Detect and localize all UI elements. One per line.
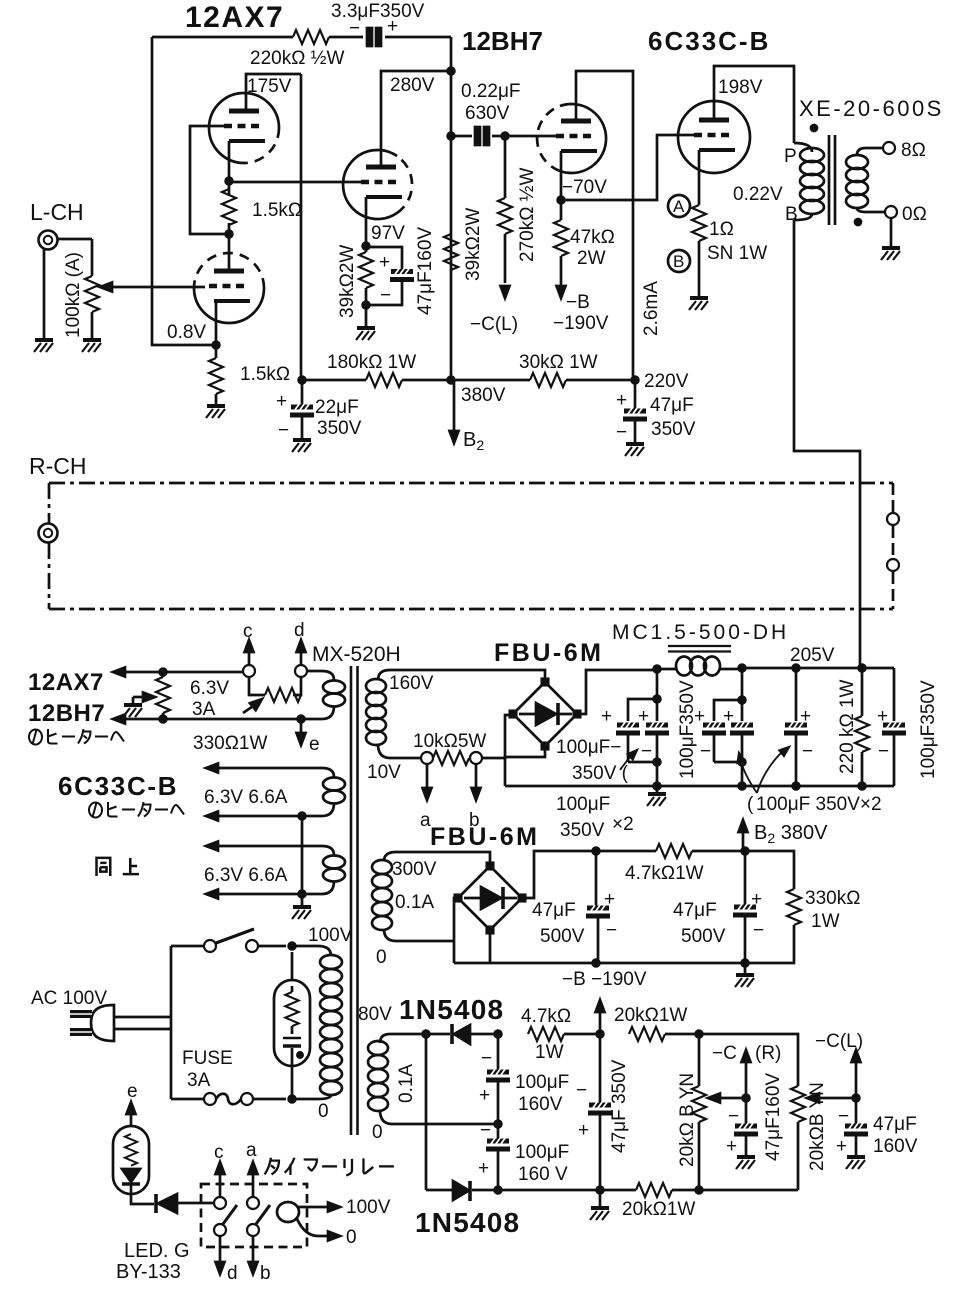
svg-text:280V: 280V [390, 75, 435, 96]
terminal a [421, 752, 433, 764]
svg-text:XE-20-600S: XE-20-600S [799, 96, 944, 121]
relay contact c-d [214, 1197, 226, 1209]
svg-text:0.1A: 0.1A [395, 892, 434, 913]
resistor R 4.7k1W [656, 844, 692, 858]
svg-text:0.8V: 0.8V [167, 322, 206, 343]
svg-text:1N5408: 1N5408 [415, 1207, 520, 1238]
wire 380V rail [302, 379, 635, 382]
svg-text:0: 0 [376, 947, 387, 968]
svg-text:B: B [785, 204, 798, 225]
capacitor C 22uF350V [301, 380, 304, 405]
svg-text:−C: −C [712, 1043, 737, 1064]
diode D1 1N5408 [450, 1024, 454, 1044]
svg-text:−: − [728, 1106, 739, 1127]
diode BY-133 [154, 1194, 158, 1213]
svg-text:3A: 3A [192, 699, 216, 720]
svg-text:+: + [604, 889, 615, 910]
wire bridge plus up to filter rail [577, 670, 657, 714]
svg-text:39kΩ2W: 39kΩ2W [463, 208, 484, 281]
svg-text:6C33C-B: 6C33C-B [58, 771, 178, 801]
capacitor C 100uF160V #2 [486, 1138, 510, 1151]
wire V1a plate to 175V line [246, 74, 301, 111]
terminal 0 ohm [885, 206, 897, 218]
cap 3 100uF350V single [795, 668, 798, 721]
node V4 grid [502, 133, 509, 140]
wire bias bottom rail [454, 962, 745, 965]
svg-text:100μF350V: 100μF350V [677, 680, 698, 779]
wire bridge minus to bottom rail [505, 746, 545, 786]
svg-text:×2: ×2 [612, 814, 634, 835]
wire b to bridge AC2 [482, 715, 510, 758]
capacitor C 47uF350V bias [599, 1034, 602, 1103]
svg-text:−: − [481, 1048, 492, 1069]
wire filter top rail [742, 667, 894, 670]
OPT core [829, 135, 835, 225]
svg-text:+: + [478, 1158, 489, 1179]
svg-text:0.1A: 0.1A [396, 1064, 417, 1103]
arrow variable 330 [243, 702, 259, 713]
node W1 bottom left [160, 716, 167, 723]
node -B line top [597, 1031, 604, 1038]
svg-text:−: − [641, 741, 652, 762]
terminal R-CH upper [887, 513, 899, 525]
jack input L [39, 231, 58, 250]
wire top rail to pot2 [699, 1034, 798, 1190]
relay contact a-b [247, 1197, 259, 1209]
svg-text:−70V: −70V [562, 177, 607, 198]
svg-text:−: − [838, 1106, 849, 1127]
svg-text:1.5kΩ: 1.5kΩ [240, 364, 290, 385]
svg-text:B: B [673, 252, 684, 271]
wire pot1 vertical [698, 1034, 701, 1190]
node 97V [363, 243, 370, 250]
arrow a [252, 1174, 255, 1197]
svg-text:+: + [836, 1136, 847, 1157]
svg-text:380V: 380V [461, 385, 506, 406]
svg-text:−B −190V: −B −190V [562, 969, 647, 990]
svg-text:10V: 10V [367, 762, 401, 783]
tube V2 12AX7 lower envelope [194, 288, 264, 323]
choke winding [657, 668, 742, 671]
wire V2 cathode lead [215, 301, 218, 345]
svg-text:−B: −B [566, 292, 590, 313]
svg-text:180kΩ 1W: 180kΩ 1W [327, 352, 416, 373]
svg-text:100μF: 100μF [515, 1142, 569, 1163]
svg-text:+: + [578, 1120, 589, 1141]
node -70V [558, 197, 565, 204]
resistor R 220k half-W [293, 30, 329, 44]
node V1a cathode / V2 grid [226, 178, 233, 185]
capacitor C 47uF160V (L) [855, 1098, 858, 1124]
svg-text:160V: 160V [518, 1094, 563, 1115]
svg-text:−: − [616, 422, 627, 443]
svg-text:(R): (R) [755, 1043, 781, 1064]
wire OPT B terminal down to supply [794, 220, 860, 668]
node tube2 cathode junction [213, 342, 220, 349]
winding 300V 0.1A [384, 852, 396, 861]
svg-text:220V: 220V [644, 371, 689, 392]
node choke input [654, 666, 661, 673]
arrow B2 output [453, 380, 456, 430]
svg-text:4.7kΩ1W: 4.7kΩ1W [625, 863, 704, 884]
svg-text:1W: 1W [811, 911, 840, 932]
arrow -C(R) [745, 1062, 748, 1098]
svg-text:6.3V: 6.3V [190, 678, 229, 699]
svg-text:B2 380V: B2 380V [754, 822, 828, 846]
winding 160V [390, 670, 545, 681]
resistor R 1.5k (V2 cathode) [215, 345, 218, 404]
tube V3 12BH7a envelope [343, 150, 397, 219]
capacitor C 47uF500V #2 [744, 851, 747, 905]
tube V4 12BH7b envelope [560, 104, 606, 173]
arrow d [219, 1236, 222, 1262]
ground below V2 cathode resistor [206, 406, 225, 418]
node 220k top [859, 665, 866, 672]
svg-text:205V: 205V [790, 645, 835, 666]
svg-text:220 kΩ 1W: 220 kΩ 1W [837, 679, 858, 774]
LED lamp capsule [113, 1126, 149, 1194]
node below 39k [363, 302, 370, 309]
svg-text:+: + [723, 706, 734, 727]
svg-text:47μF160V: 47μF160V [763, 1073, 784, 1161]
resistor R 220k1W bleeder [861, 668, 864, 786]
svg-text:−: − [380, 285, 391, 306]
svg-text:−: − [878, 741, 889, 762]
node choke out [739, 665, 746, 672]
svg-text:350V: 350V [651, 419, 696, 440]
ground V5 cathode [689, 298, 708, 310]
svg-text:220kΩ ½W: 220kΩ ½W [250, 48, 345, 69]
wire bias bottom rail [498, 1189, 798, 1192]
svg-text:12BH7: 12BH7 [28, 700, 105, 727]
wire V2 plate lead [228, 234, 231, 269]
svg-text:−C(L): −C(L) [470, 314, 518, 335]
svg-text:+: + [276, 391, 287, 412]
ground bias doubler [599, 1190, 602, 1206]
label no-heater-he (12AX7/12BH7) [29, 729, 124, 745]
wiper hum balance to ground [133, 696, 146, 699]
wire V5 plate to OPT primary [714, 66, 794, 143]
wire jack to pot [58, 239, 92, 276]
arrow to -C(L) [501, 286, 510, 298]
node doubler left [423, 1031, 430, 1038]
svg-text:0: 0 [372, 1122, 383, 1143]
svg-text:330kΩ: 330kΩ [805, 888, 860, 909]
winding W2 6.3V6.6A [214, 768, 334, 777]
svg-text:−: − [753, 920, 764, 941]
ground bias [744, 963, 747, 973]
svg-text:b: b [260, 1263, 271, 1284]
svg-text:630V: 630V [465, 103, 510, 124]
svg-text:22μF: 22μF [315, 397, 359, 418]
phase dot secondary [855, 219, 861, 225]
svg-text:+: + [638, 706, 649, 727]
svg-text:2.6mA: 2.6mA [641, 281, 662, 336]
node pot1 top [696, 1031, 703, 1038]
resistor R 4.7k1W bias [528, 1027, 564, 1041]
node B2 meet [742, 848, 749, 855]
svg-text:c: c [214, 1142, 224, 1163]
capacitor C 3.3uF350V (film) [367, 28, 381, 46]
wire doubler left vertical [425, 1034, 428, 1190]
resistor R 180k1W [366, 373, 402, 387]
node -B line bottom [597, 1187, 604, 1194]
tube V1a internals [224, 111, 265, 141]
node 280V top [448, 68, 455, 75]
capacitor C 47uF160V (V3 cathode bypass) [390, 269, 414, 282]
svg-text:100μF: 100μF [556, 794, 610, 815]
wire V3 grid to V1a cathode [229, 181, 361, 184]
svg-text:47μF: 47μF [873, 1114, 917, 1135]
potentiometer 20k B YN (R) [692, 1086, 706, 1122]
resistor R 20k1W top [629, 1027, 665, 1041]
svg-text:47μF 350V: 47μF 350V [609, 1059, 630, 1153]
svg-text:350V (: 350V ( [572, 763, 629, 784]
diode D2 1N5408 [426, 1189, 452, 1192]
svg-text:−: − [802, 741, 813, 762]
svg-text:4.7kΩ: 4.7kΩ [521, 1006, 571, 1027]
wire V4 cathode lead [560, 151, 563, 200]
arrow 100V relay [328, 1203, 340, 1212]
svg-text:+: + [616, 390, 627, 411]
svg-text:LED. G: LED. G [124, 1240, 190, 1262]
wire jack sleeve to ground [43, 248, 46, 338]
cap pair 1 100uF350V x2 [656, 669, 659, 699]
svg-text:−190V: −190V [553, 313, 609, 334]
relay coil [277, 1202, 299, 1222]
svg-text:300V: 300V [392, 859, 437, 880]
node wiper R [743, 1095, 750, 1102]
callout arrow cap pair1 [620, 753, 634, 770]
svg-text:47μF: 47μF [532, 900, 576, 921]
wire V2 grid to pot wiper [104, 286, 205, 289]
svg-text:0: 0 [346, 1227, 357, 1248]
wire plate-load vertical x=301 [300, 74, 303, 380]
node bias cap1 [593, 848, 600, 855]
switch mains [171, 945, 286, 948]
bridge BR1 FBU-6M [513, 682, 577, 746]
svg-text:80V: 80V [358, 1004, 392, 1025]
winding 80V 0.1A [380, 1034, 390, 1043]
resistor R 330ohm1W between c and d [249, 677, 265, 695]
svg-text:97V: 97V [371, 223, 405, 244]
resistor R 39k2W (dropper on x=452) [444, 234, 458, 270]
bridge BR2 FBU-6M [458, 866, 522, 930]
svg-text:0Ω: 0Ω [902, 204, 927, 225]
svg-text:20kΩ B YN: 20kΩ B YN [677, 1073, 698, 1167]
svg-text:6C33C-B: 6C33C-B [648, 26, 770, 56]
svg-text:350V: 350V [317, 418, 362, 439]
wire to ground V3 cathode [365, 305, 368, 326]
wire 97V to bypass cap top [366, 247, 402, 270]
wire bridge2 minus [489, 930, 492, 963]
resistor R 39k2W (V3 cathode) [365, 246, 368, 305]
svg-text:0: 0 [318, 1101, 329, 1122]
svg-text:6.3V 6.6A: 6.3V 6.6A [204, 865, 288, 886]
svg-text:100μF350V: 100μF350V [918, 680, 939, 779]
resistor R 47k2W [560, 200, 563, 288]
svg-text:MC1.5-500-DH: MC1.5-500-DH [612, 621, 789, 644]
svg-text:MX-520H: MX-520H [312, 643, 401, 666]
tube V1a 12AX7 envelope [209, 93, 279, 163]
svg-text:−: − [278, 420, 289, 441]
node A (circled) [668, 195, 690, 217]
svg-text:−: − [576, 1080, 587, 1101]
winding W3 6.3V6.6A [214, 846, 334, 855]
node 180k left [299, 377, 306, 384]
svg-text:(: ( [747, 794, 754, 815]
cap 4 100uF350V [893, 668, 896, 721]
svg-text:330Ω1W: 330Ω1W [193, 733, 267, 754]
arrow -C(L) [855, 1062, 858, 1098]
winding W1 6.3V3A top lead [113, 671, 243, 674]
svg-text:39kΩ2W: 39kΩ2W [337, 245, 358, 318]
svg-text:160V: 160V [873, 1136, 918, 1157]
resistor R 10k5W [433, 751, 469, 765]
resistor hum balance [156, 677, 170, 713]
svg-text:2W: 2W [577, 248, 606, 269]
wire B+ vertical x=452 [450, 37, 453, 380]
label no-heater-he (6C33C-B) [89, 802, 184, 818]
svg-text:FBU-6M: FBU-6M [430, 823, 539, 851]
potentiometer 100k(A) [85, 276, 99, 312]
arrow e up [130, 1114, 133, 1126]
svg-text:FBU-6M: FBU-6M [494, 639, 603, 667]
svg-text:20kΩ1W: 20kΩ1W [614, 1005, 687, 1026]
svg-text:1Ω: 1Ω [709, 219, 734, 240]
svg-text:270kΩ ½W: 270kΩ ½W [517, 167, 538, 262]
OPT secondary winding [846, 155, 868, 169]
wire filter bottom rail [505, 785, 894, 788]
wire V4 plate up and over to 220V node [576, 71, 633, 380]
svg-text:20kΩB YN: 20kΩB YN [807, 1082, 828, 1171]
callout arrows 100uF350Vx2 [740, 749, 786, 793]
label dou-ue (same as above) [97, 858, 140, 876]
svg-text:+: + [387, 16, 398, 37]
wire 80V top [390, 1033, 450, 1036]
svg-text:20kΩ1W: 20kΩ1W [622, 1199, 695, 1220]
svg-text:+: + [877, 706, 888, 727]
arrow c [219, 1174, 222, 1197]
svg-text:+: + [800, 706, 811, 727]
svg-text:c: c [243, 621, 253, 642]
winding W4 primary 100V [292, 946, 331, 956]
svg-text:100μF: 100μF [515, 1072, 569, 1093]
tube V5 6C33C-B envelope [678, 101, 750, 173]
node e tap [298, 716, 305, 723]
svg-text:−: − [349, 18, 360, 39]
arrow e tap [300, 719, 303, 733]
resistor R 20k1W bottom [636, 1183, 672, 1197]
svg-text:47μF: 47μF [673, 900, 717, 921]
phase dot primary [811, 125, 817, 131]
arrow pot wiper [100, 283, 112, 292]
wire bypass cap bottom [366, 281, 402, 305]
svg-text:1N5408: 1N5408 [399, 994, 504, 1025]
wire left feedback vertical to tube2 cathode [152, 37, 216, 345]
svg-text:−: − [480, 1120, 491, 1141]
terminal R-CH lower [887, 559, 899, 571]
terminal 8 ohm [883, 142, 895, 154]
svg-text:100V: 100V [308, 925, 353, 946]
capacitor C 47uF350V (220V node) [634, 380, 637, 409]
wire 300V top to bridge2 [396, 852, 490, 866]
wire bridge2 AC2 [454, 898, 458, 963]
svg-text:47μF: 47μF [650, 395, 694, 416]
node V2 plate junction [226, 231, 233, 238]
svg-text:12BH7: 12BH7 [462, 26, 543, 56]
svg-text:10kΩ5W: 10kΩ5W [413, 731, 486, 752]
box R-CH dashed outline [49, 483, 893, 609]
svg-text:350V: 350V [560, 820, 605, 841]
svg-text:d: d [227, 1263, 238, 1284]
svg-text:500V: 500V [681, 926, 726, 947]
svg-text:−: − [606, 920, 617, 941]
svg-text:12AX7: 12AX7 [28, 669, 104, 696]
node wiper L [853, 1095, 860, 1102]
svg-text:100μF 350V×2: 100μF 350V×2 [756, 794, 882, 815]
svg-text:1W: 1W [535, 1042, 564, 1063]
svg-text:d: d [294, 620, 305, 641]
svg-text:0.22μF: 0.22μF [461, 81, 521, 102]
node pot1 bottom [696, 1187, 703, 1194]
arrow B2 380V [742, 832, 745, 851]
svg-text:0.22V: 0.22V [733, 184, 783, 205]
wire V1a grid loop [190, 126, 229, 234]
svg-text:R-CH: R-CH [29, 453, 87, 479]
choke core [668, 646, 731, 652]
svg-text:12AX7: 12AX7 [185, 1, 284, 34]
arrow b [252, 1236, 255, 1262]
resistor R 330k1W [745, 851, 794, 889]
resistor R 1.5k (V1a cathode) [228, 181, 231, 234]
svg-text:A: A [673, 197, 685, 216]
resistor R 1ohm SN1W [692, 205, 706, 241]
svg-text:198V: 198V [718, 77, 763, 98]
svg-text:−C(L): −C(L) [815, 1031, 863, 1052]
node coupling [448, 133, 455, 140]
ground speaker [890, 218, 893, 246]
wire V3 cathode lead [365, 197, 368, 246]
node caps top [495, 1031, 502, 1038]
terminal d [295, 665, 307, 677]
capacitor C 0.22uF630V (film coupling) [451, 135, 505, 138]
svg-text:+: + [726, 1136, 737, 1157]
node caps mid [495, 1121, 502, 1128]
node W1 left top [160, 669, 167, 676]
ground filter [656, 786, 659, 792]
node 380V [448, 377, 455, 384]
wire V5 cathode lead [698, 150, 701, 205]
node B (circled) [668, 250, 690, 272]
label timer relay katakana [265, 1158, 394, 1176]
svg-text:3A: 3A [187, 1070, 211, 1091]
winding W1 body [307, 671, 334, 680]
svg-text:160 V: 160 V [518, 1164, 568, 1185]
wire mains vertical [170, 946, 173, 1099]
wire grid node to V4 [505, 135, 556, 138]
svg-text:L-CH: L-CH [30, 199, 84, 225]
capacitor C 47uF160V (R) [745, 1098, 748, 1124]
svg-text:AC 100V: AC 100V [31, 988, 107, 1009]
svg-text:500V: 500V [540, 926, 585, 947]
wire W2-W3 common [301, 816, 304, 905]
node lamp top [289, 943, 296, 950]
wire V3 plate to 280V rail [381, 71, 451, 167]
terminal b [470, 752, 482, 764]
svg-text:SN 1W: SN 1W [707, 243, 767, 264]
node 205V [793, 665, 800, 672]
